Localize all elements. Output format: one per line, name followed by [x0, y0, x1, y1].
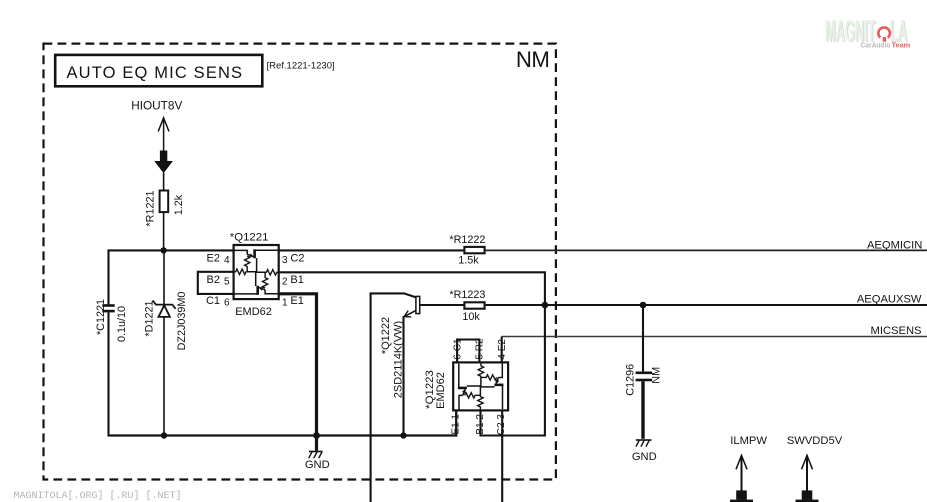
- svg-text:E1: E1: [290, 295, 303, 307]
- resistor R1221: [160, 191, 169, 213]
- svg-text:AEQMICIN: AEQMICIN: [867, 240, 922, 252]
- svg-text:EMD62: EMD62: [435, 372, 447, 409]
- D1221 value DZ2J039M0: [176, 292, 188, 351]
- R1222 value 1.5k: [458, 255, 479, 267]
- wire R1222 to AEQMICIN: [486, 249, 927, 251]
- ground symbol left: [309, 452, 323, 459]
- svg-text:E1 1: E1 1: [451, 414, 462, 435]
- wire C2 off-page: [501, 411, 503, 502]
- svg-text:GND: GND: [632, 451, 657, 463]
- ground rail wire: [109, 411, 457, 436]
- svg-text:MAGNITOLA[.ORG] [.RU] [.NET]: MAGNITOLA[.ORG] [.RU] [.NET]: [14, 490, 182, 502]
- Q1221 internal cells: [233, 249, 279, 294]
- net label AEQAUXSW: [857, 293, 922, 305]
- logo MAGNITOLA: [825, 13, 911, 49]
- power flag HIOUT8V: [131, 98, 182, 190]
- wire MICSENS line: [502, 336, 927, 338]
- svg-text:SWVDD5V: SWVDD5V: [787, 435, 843, 447]
- Q1223 designator: [424, 370, 436, 409]
- svg-text:C1296: C1296: [625, 364, 637, 396]
- block boundary dashed border: [44, 44, 556, 480]
- resistor R1222: [464, 247, 484, 253]
- svg-text:6: 6: [224, 298, 230, 309]
- GND text C1296: [632, 451, 657, 463]
- wire E1 to ground (thick): [279, 294, 317, 451]
- wire C2 to R1222: [279, 249, 464, 251]
- R1223 designator: [449, 289, 485, 301]
- Q1222 part 2SD2114K(VW): [393, 321, 405, 398]
- svg-text:*C1221: *C1221: [95, 299, 107, 335]
- Q1223 pin labels top: [452, 338, 508, 360]
- terminal SWVDD5V: [787, 435, 843, 502]
- svg-text:2: 2: [282, 277, 288, 288]
- svg-text:4: 4: [224, 255, 230, 266]
- transistor Q1221 EMD62 box: [234, 245, 279, 299]
- svg-text:ILMPW: ILMPW: [730, 435, 767, 447]
- Q1223 internal cells (rotated): [458, 363, 503, 409]
- svg-text:HIOUT8V: HIOUT8V: [131, 98, 182, 112]
- wire B2-C1 loop: [198, 272, 233, 294]
- transistor Q1222 2SD2114K: [371, 293, 464, 502]
- junction AEQAUXSW node: [542, 302, 549, 309]
- wire AEQAUXSW line: [486, 304, 927, 306]
- Q1221 pin labels left: [206, 253, 230, 309]
- svg-text:NM: NM: [650, 367, 662, 384]
- Q1222 designator: [380, 317, 392, 354]
- Q1223 part EMD62: [435, 372, 447, 409]
- svg-text:GND: GND: [305, 459, 330, 471]
- svg-text:AUTO EQ MIC SENS: AUTO EQ MIC SENS: [67, 64, 244, 82]
- capacitor C1221: [102, 304, 114, 312]
- svg-text:1.2k: 1.2k: [173, 194, 185, 215]
- svg-text:*Q1222: *Q1222: [380, 317, 392, 354]
- svg-text:5: 5: [224, 277, 230, 288]
- svg-text:10k: 10k: [462, 311, 480, 323]
- wire E2 to MICSENS: [501, 337, 503, 362]
- svg-text:NM: NM: [516, 47, 550, 72]
- R1223 value 10k: [462, 311, 480, 323]
- R1222 designator: [449, 234, 485, 246]
- svg-text:*D1221: *D1221: [143, 300, 155, 336]
- capacitor C1296: [636, 305, 653, 439]
- svg-text:1: 1: [282, 298, 288, 309]
- svg-text:E2: E2: [207, 253, 220, 265]
- wire C1-R2 loop (Q1223): [457, 340, 479, 362]
- junction D1221 on rail: [161, 432, 167, 438]
- svg-text:CarAudio: CarAudio: [861, 42, 892, 49]
- ground symbol C1296: [636, 440, 652, 447]
- Q1223 pin labels bottom: [451, 414, 508, 436]
- R1221 designator: [144, 190, 156, 226]
- svg-text:*R1222: *R1222: [449, 234, 485, 246]
- GND text left: [305, 459, 330, 471]
- svg-text:Team: Team: [892, 41, 911, 50]
- terminal ILMPW: [730, 435, 767, 502]
- transistor Q1223 EMD62 box: [453, 362, 508, 410]
- wire R1221 to node: [163, 212, 165, 250]
- resistor R1223: [464, 302, 484, 308]
- reference note: [267, 61, 335, 72]
- junction E1 wire on rail: [313, 432, 320, 439]
- svg-text:3: 3: [282, 255, 288, 266]
- C1221 designator: [95, 299, 107, 335]
- Q1221 pin labels right: [282, 253, 304, 309]
- svg-text:[Ref.1221-1230]: [Ref.1221-1230]: [267, 61, 335, 72]
- wire C1221 to ground rail: [107, 312, 109, 436]
- junction C1296 node: [640, 302, 647, 309]
- svg-text:*R1223: *R1223: [449, 289, 485, 301]
- wire B1 jog to AEQAUXSW node: [481, 305, 545, 436]
- svg-text:MICSENS: MICSENS: [871, 325, 922, 337]
- junction Q1222 emitter on rail: [400, 432, 406, 438]
- wire B1 to AEQAUXSW junction: [279, 272, 545, 305]
- Q1221 designator: [230, 232, 269, 244]
- net label AEQMICIN: [867, 240, 922, 252]
- svg-text:1.5k: 1.5k: [458, 255, 479, 267]
- svg-text:DZ2J039M0: DZ2J039M0: [176, 292, 188, 351]
- wire main node row (to C1221 corner and Q1221 pin4): [109, 250, 233, 305]
- NM marking: [516, 47, 550, 72]
- C1221 value 0.1u/10: [116, 306, 128, 342]
- svg-text:B1: B1: [290, 274, 303, 286]
- svg-text:*R1221: *R1221: [144, 190, 156, 226]
- svg-text:2SD2114K(VW): 2SD2114K(VW): [393, 321, 405, 398]
- svg-text:AEQAUXSW: AEQAUXSW: [857, 293, 922, 305]
- svg-text:C1: C1: [206, 295, 220, 307]
- zener diode D1221: [153, 250, 176, 435]
- svg-text:EMD62: EMD62: [235, 306, 272, 318]
- net label MICSENS: [871, 325, 922, 337]
- svg-text:0.1u/10: 0.1u/10: [116, 306, 128, 342]
- junction node below R1221: [160, 247, 166, 253]
- watermark: [14, 490, 182, 502]
- C1296 value NM: [650, 367, 662, 384]
- svg-text:*Q1221: *Q1221: [230, 232, 269, 244]
- svg-text:C2: C2: [290, 253, 304, 265]
- block title AUTO EQ MIC SENS: [55, 55, 262, 86]
- D1221 designator: [143, 300, 155, 336]
- C1296 designator: [625, 364, 637, 396]
- Q1221 part EMD62: [235, 306, 272, 318]
- svg-text:B2: B2: [207, 274, 220, 286]
- R1221 value 1.2k: [173, 194, 185, 215]
